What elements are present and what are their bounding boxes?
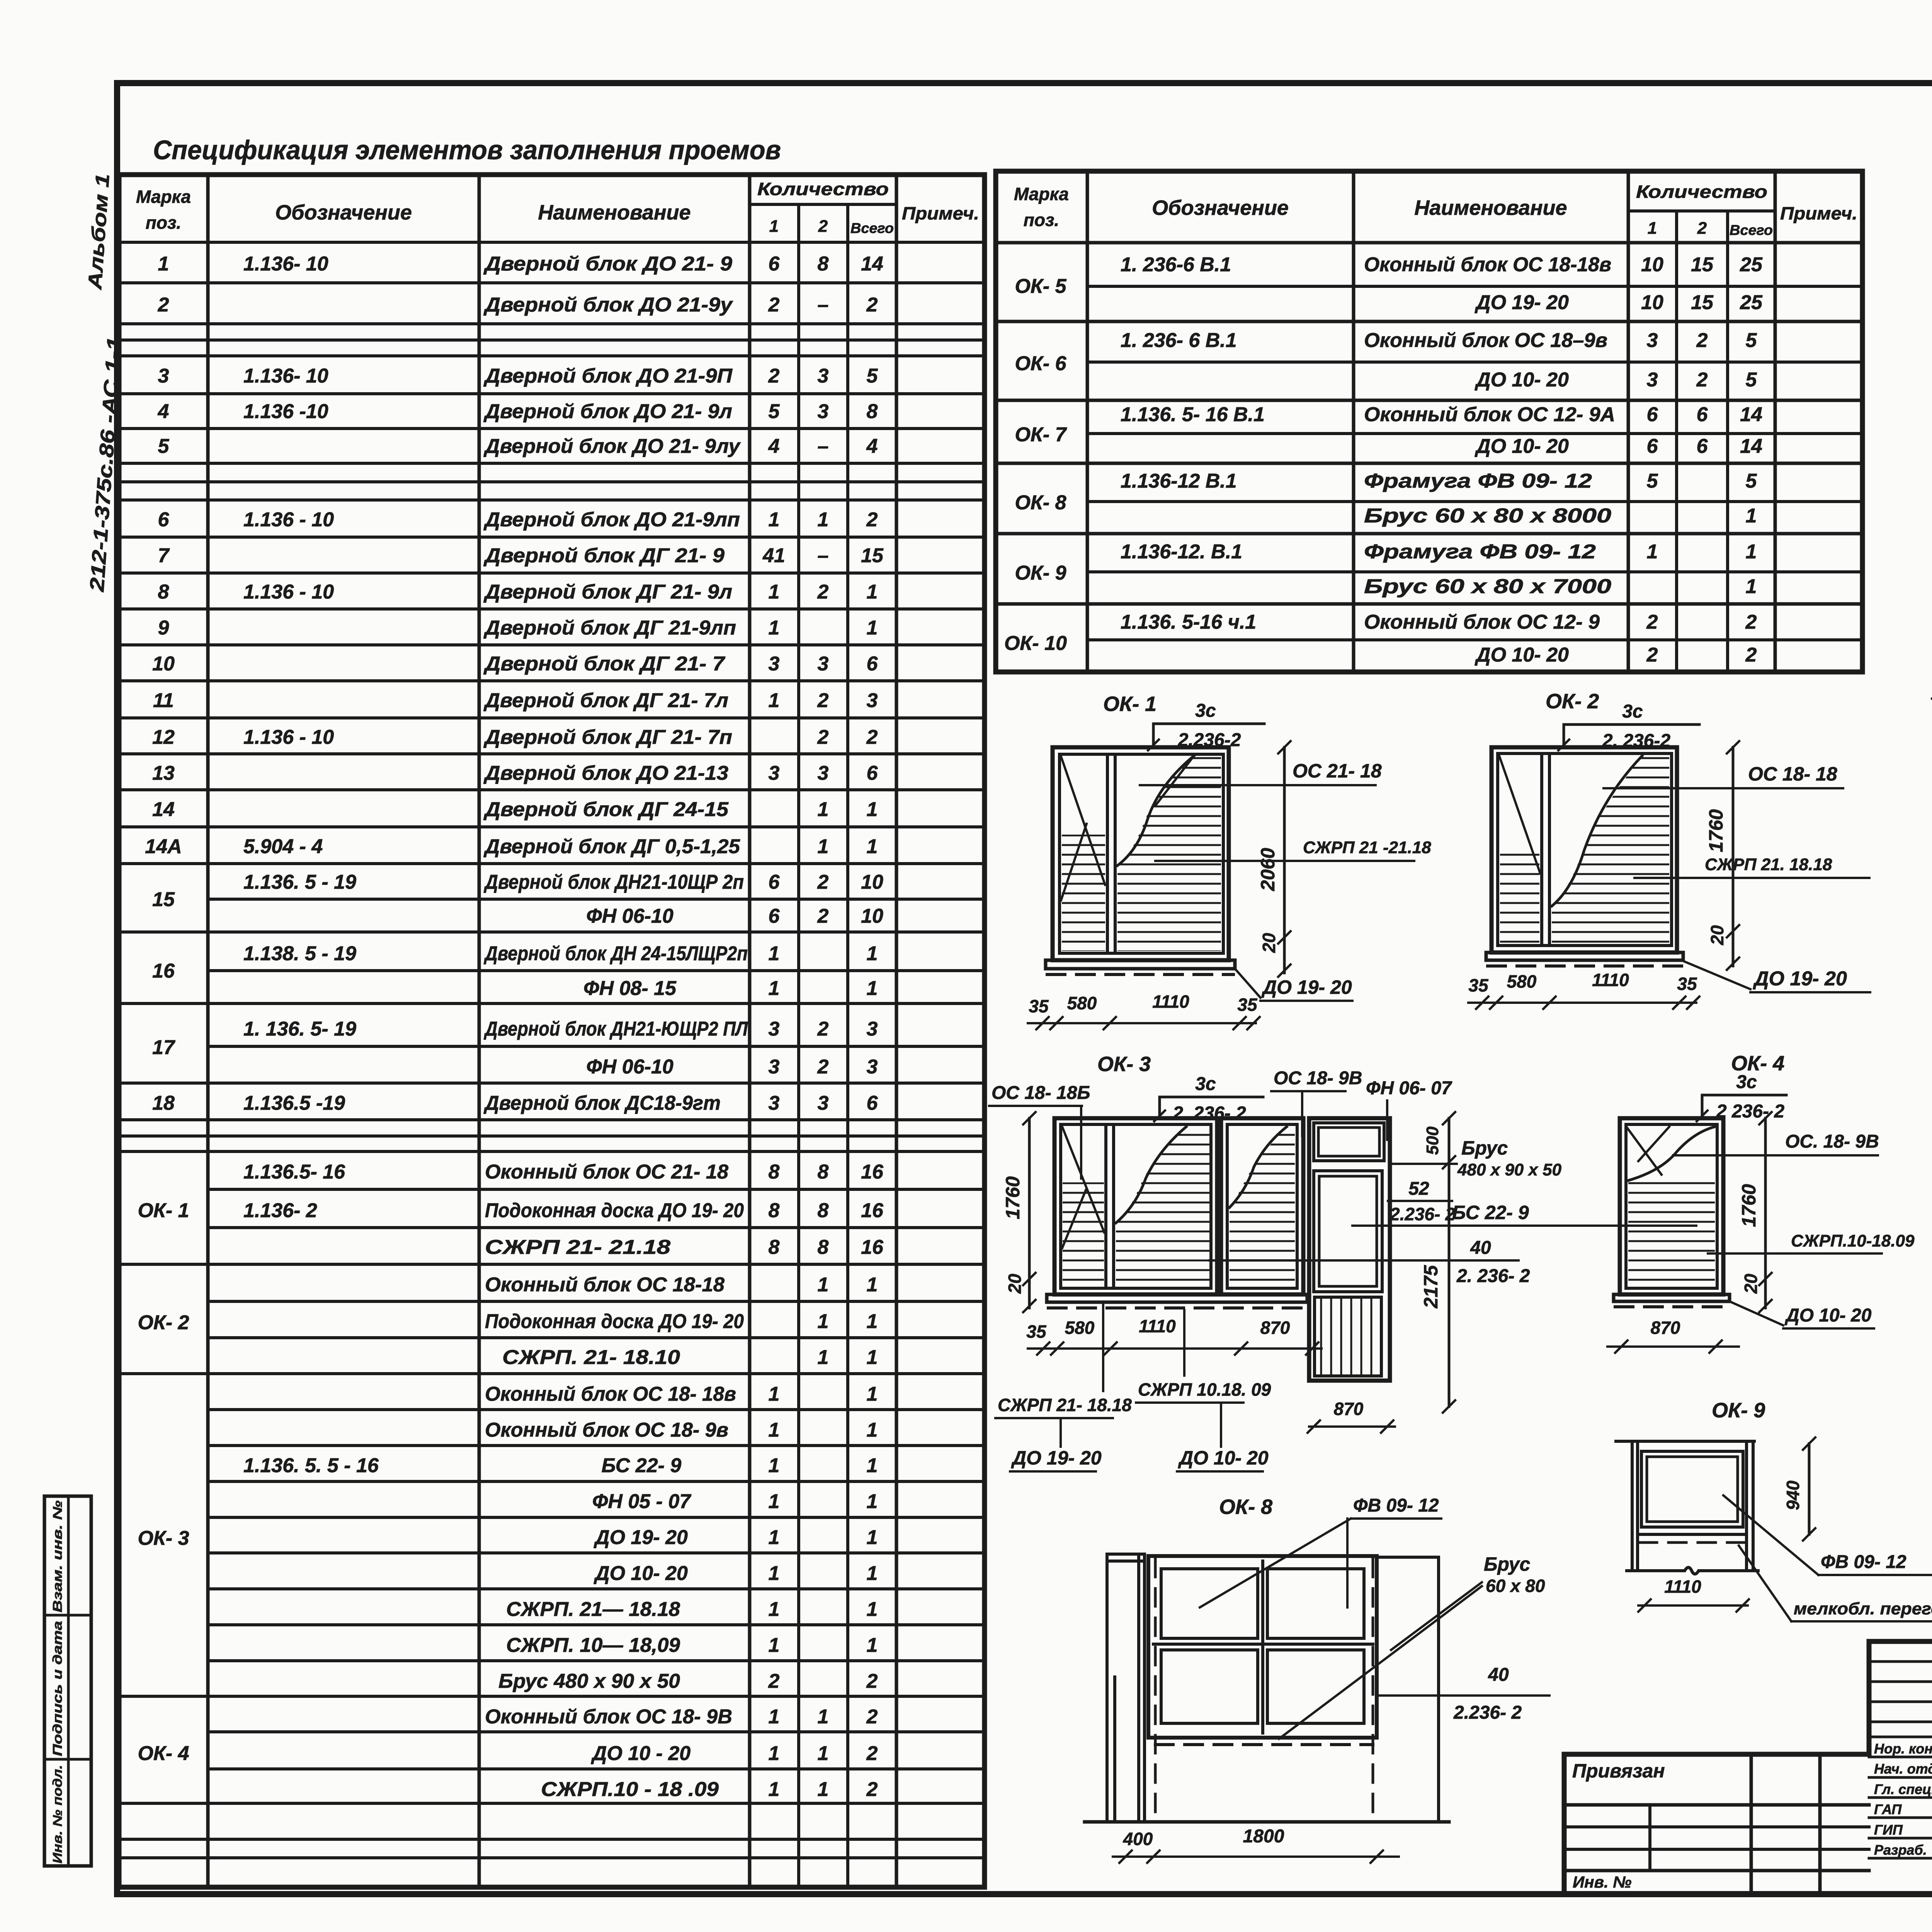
svg-text:3: 3 xyxy=(818,762,829,784)
svg-text:Всего: Всего xyxy=(1730,222,1773,238)
svg-text:5: 5 xyxy=(867,365,878,387)
svg-text:35: 35 xyxy=(1026,1321,1047,1342)
svg-text:1: 1 xyxy=(769,1598,780,1621)
svg-text:5: 5 xyxy=(769,400,780,423)
svg-text:ДО 10- 20: ДО 10- 20 xyxy=(1475,644,1569,666)
svg-text:20: 20 xyxy=(1259,933,1279,953)
OK-4 height dimension xyxy=(1764,1118,1767,1308)
svg-text:8: 8 xyxy=(818,1161,829,1183)
svg-text:1: 1 xyxy=(769,1706,780,1728)
left specification table grid xyxy=(119,172,985,177)
svg-text:14: 14 xyxy=(861,253,883,275)
svg-text:1: 1 xyxy=(818,1706,829,1728)
svg-text:ДО 10- 20: ДО 10- 20 xyxy=(1784,1305,1872,1326)
svg-text:1110: 1110 xyxy=(1592,970,1629,990)
svg-text:500: 500 xyxy=(1423,1126,1442,1155)
svg-text:1: 1 xyxy=(769,942,780,965)
svg-text:Дверной блок ДГ 21- 9: Дверной блок ДГ 21- 9 xyxy=(483,544,724,567)
svg-text:870: 870 xyxy=(1334,1399,1364,1419)
svg-text:5: 5 xyxy=(1746,369,1757,391)
svg-text:870: 870 xyxy=(1651,1318,1680,1338)
svg-text:1.136-12 В.1: 1.136-12 В.1 xyxy=(1121,470,1237,492)
OK-8 ground line xyxy=(1085,1820,1449,1824)
svg-text:Оконный блок ОС 21- 18: Оконный блок ОС 21- 18 xyxy=(485,1161,728,1183)
svg-text:1: 1 xyxy=(818,798,829,821)
svg-text:2: 2 xyxy=(866,294,878,316)
OK-3 sill xyxy=(1047,1294,1307,1302)
svg-text:Дверной блок ДГ 21- 7п: Дверной блок ДГ 21- 7п xyxy=(483,726,732,748)
svg-text:Оконный блок ОС 12- 9А: Оконный блок ОС 12- 9А xyxy=(1364,403,1615,426)
svg-text:Брус 60 х 80 х 8000: Брус 60 х 80 х 8000 xyxy=(1364,505,1611,527)
svg-text:ДО 19- 20: ДО 19- 20 xyxy=(1753,968,1847,990)
svg-text:Оконный блок ОС 18-18: Оконный блок ОС 18-18 xyxy=(485,1274,724,1296)
svg-text:8: 8 xyxy=(769,1161,780,1183)
svg-text:ОК- 3: ОК- 3 xyxy=(1097,1053,1151,1076)
svg-text:2: 2 xyxy=(866,1742,878,1765)
svg-text:Оконный блок ОС 18-18в: Оконный блок ОС 18-18в xyxy=(1364,253,1611,276)
svg-text:1: 1 xyxy=(158,253,169,275)
svg-text:Подпись и дата: Подпись и дата xyxy=(50,1621,65,1756)
svg-text:Оконный блок ОС 18–9в: Оконный блок ОС 18–9в xyxy=(1364,329,1607,352)
svg-text:2: 2 xyxy=(866,726,878,748)
svg-text:1.136 - 10: 1.136 - 10 xyxy=(243,726,334,748)
svg-text:1.136- 10: 1.136- 10 xyxy=(243,253,328,275)
svg-text:1: 1 xyxy=(818,509,829,531)
svg-text:1: 1 xyxy=(867,1634,878,1656)
svg-text:Примеч.: Примеч. xyxy=(1780,203,1857,223)
right specification table grid xyxy=(996,169,1862,174)
svg-text:35: 35 xyxy=(1677,974,1697,994)
svg-text:1: 1 xyxy=(769,1454,780,1477)
svg-text:15: 15 xyxy=(1691,291,1714,314)
svg-text:1.136- 10: 1.136- 10 xyxy=(243,365,328,387)
svg-text:2: 2 xyxy=(866,1706,878,1728)
svg-text:ОК- 8: ОК- 8 xyxy=(1015,492,1066,514)
svg-text:52: 52 xyxy=(1408,1179,1429,1199)
svg-text:6: 6 xyxy=(1647,403,1658,426)
svg-text:8: 8 xyxy=(818,1199,829,1222)
svg-text:6: 6 xyxy=(769,871,780,893)
svg-text:ОК- 6: ОК- 6 xyxy=(1015,352,1066,375)
svg-text:1110: 1110 xyxy=(1664,1577,1701,1597)
svg-text:1: 1 xyxy=(769,617,780,639)
svg-text:ОК- 10: ОК- 10 xyxy=(1004,632,1067,655)
svg-text:6: 6 xyxy=(1697,435,1708,457)
OK-2 labels xyxy=(1604,787,1843,789)
svg-text:Всего: Всего xyxy=(850,220,894,236)
svg-text:3с: 3с xyxy=(1195,1074,1216,1094)
svg-text:20: 20 xyxy=(1741,1274,1761,1294)
svg-text:ОС 18- 18: ОС 18- 18 xyxy=(1748,763,1837,785)
svg-text:10: 10 xyxy=(861,905,883,927)
svg-text:Фрамуга ФВ 09- 12: Фрамуга ФВ 09- 12 xyxy=(1364,470,1592,492)
svg-text:Дверной блок ДН 24-15ЛЩР2п: Дверной блок ДН 24-15ЛЩР2п xyxy=(484,942,748,965)
svg-text:СЖРП 21- 18.18: СЖРП 21- 18.18 xyxy=(998,1395,1132,1415)
svg-text:3с: 3с xyxy=(1622,701,1643,722)
svg-text:ОК- 1: ОК- 1 xyxy=(138,1199,189,1222)
svg-text:1: 1 xyxy=(818,1346,829,1369)
svg-text:ОК- 2: ОК- 2 xyxy=(1546,690,1599,713)
svg-text:10: 10 xyxy=(1641,253,1663,276)
svg-text:2: 2 xyxy=(817,1018,829,1040)
svg-text:2: 2 xyxy=(817,726,829,748)
svg-text:4: 4 xyxy=(768,435,780,457)
svg-text:3: 3 xyxy=(769,762,780,784)
svg-text:3: 3 xyxy=(818,365,829,387)
svg-text:16: 16 xyxy=(861,1236,884,1259)
svg-text:35: 35 xyxy=(1237,995,1258,1015)
svg-text:ОК- 5: ОК- 5 xyxy=(1015,275,1066,298)
svg-text:1110: 1110 xyxy=(1152,992,1189,1012)
svg-text:Наименование: Наименование xyxy=(538,201,690,224)
svg-text:16: 16 xyxy=(861,1161,884,1183)
svg-text:1: 1 xyxy=(867,835,878,858)
svg-text:940: 940 xyxy=(1783,1480,1803,1510)
svg-text:16: 16 xyxy=(861,1199,884,1222)
svg-text:1: 1 xyxy=(769,689,780,712)
svg-text:2.236- 2: 2.236- 2 xyxy=(1389,1204,1455,1224)
svg-text:СЖРП 21 -21.18: СЖРП 21 -21.18 xyxy=(1303,838,1431,857)
svg-text:1. 136. 5- 19: 1. 136. 5- 19 xyxy=(243,1018,356,1040)
svg-text:Количество: Количество xyxy=(1636,182,1767,202)
svg-text:1: 1 xyxy=(818,1310,829,1333)
svg-text:5: 5 xyxy=(1647,470,1658,492)
svg-text:БС 22- 9: БС 22- 9 xyxy=(1452,1202,1529,1223)
svg-text:1: 1 xyxy=(769,1490,780,1513)
OK-1 height dimension xyxy=(1283,747,1286,973)
bottom-left stamp boxes xyxy=(44,1496,91,1866)
svg-text:1: 1 xyxy=(867,798,878,821)
svg-text:2: 2 xyxy=(866,509,878,531)
svg-text:ОК- 2: ОК- 2 xyxy=(138,1311,189,1334)
svg-text:Количество: Количество xyxy=(757,179,889,199)
svg-text:8: 8 xyxy=(769,1199,780,1222)
svg-text:3: 3 xyxy=(769,1018,780,1040)
svg-text:6: 6 xyxy=(769,253,780,275)
svg-text:3: 3 xyxy=(867,1018,878,1040)
svg-text:17: 17 xyxy=(152,1036,175,1059)
svg-text:1: 1 xyxy=(867,1310,878,1333)
svg-text:Брус 480 х 90 х 50: Брус 480 х 90 х 50 xyxy=(498,1670,680,1692)
svg-text:1: 1 xyxy=(1746,575,1757,598)
svg-text:1110: 1110 xyxy=(1139,1316,1176,1336)
OK-2 height dimension xyxy=(1732,747,1735,966)
svg-text:1: 1 xyxy=(867,1526,878,1549)
svg-text:СЖРП.10 - 18 .09: СЖРП.10 - 18 .09 xyxy=(541,1778,719,1801)
svg-text:25: 25 xyxy=(1740,291,1763,314)
svg-text:1: 1 xyxy=(769,217,779,236)
svg-text:Обозначение: Обозначение xyxy=(1152,196,1289,219)
svg-text:2.236- 2: 2.236- 2 xyxy=(1453,1702,1522,1723)
svg-text:1.136.5- 16: 1.136.5- 16 xyxy=(243,1161,345,1183)
svg-text:ОС 18- 9В: ОС 18- 9В xyxy=(1274,1068,1362,1088)
OK-8 bottom dimensions xyxy=(1113,1855,1399,1858)
svg-text:Фрамуга ФВ 09- 12: Фрамуга ФВ 09- 12 xyxy=(1364,541,1596,563)
svg-text:СЖРП 21- 21.18: СЖРП 21- 21.18 xyxy=(485,1236,670,1259)
svg-text:1: 1 xyxy=(867,1346,878,1369)
svg-text:Дверной блок ДГ 24-15: Дверной блок ДГ 24-15 xyxy=(483,798,729,821)
svg-text:мелкобл. перегородки: мелкобл. перегородки xyxy=(1794,1599,1932,1618)
svg-text:ДО 10- 20: ДО 10- 20 xyxy=(1475,435,1569,457)
svg-text:25: 25 xyxy=(1740,253,1763,276)
svg-text:1: 1 xyxy=(867,617,878,639)
svg-text:Дверной блок ДГ 0,5-1,25: Дверной блок ДГ 0,5-1,25 xyxy=(483,835,740,858)
svg-text:3: 3 xyxy=(867,1056,878,1078)
svg-text:6: 6 xyxy=(158,509,170,531)
svg-text:Подоконная доска ДО 19- 20: Подоконная доска ДО 19- 20 xyxy=(485,1310,744,1333)
svg-text:8: 8 xyxy=(818,1236,829,1259)
svg-text:2: 2 xyxy=(1697,219,1707,238)
svg-text:ФВ 09- 12: ФВ 09- 12 xyxy=(1821,1552,1906,1572)
svg-text:Оконный блок ОС 18- 9в: Оконный блок ОС 18- 9в xyxy=(485,1419,728,1441)
svg-text:41: 41 xyxy=(762,544,785,567)
svg-text:СЖРП. 21— 18.18: СЖРП. 21— 18.18 xyxy=(506,1598,680,1621)
svg-text:1.136. 5 - 19: 1.136. 5 - 19 xyxy=(243,871,356,893)
svg-text:2175: 2175 xyxy=(1420,1265,1442,1308)
OK-4 width dimension xyxy=(1607,1345,1739,1348)
svg-text:6: 6 xyxy=(1647,435,1658,457)
svg-text:1: 1 xyxy=(867,1274,878,1296)
svg-text:Примеч.: Примеч. xyxy=(902,203,979,223)
svg-text:3: 3 xyxy=(818,653,829,675)
OK-2 sill xyxy=(1486,952,1683,960)
svg-text:Дверной блок ДГ 21- 9л: Дверной блок ДГ 21- 9л xyxy=(483,581,732,603)
svg-text:3: 3 xyxy=(818,400,829,423)
svg-text:15: 15 xyxy=(152,888,175,911)
svg-text:14: 14 xyxy=(1740,435,1762,457)
svg-text:20: 20 xyxy=(1005,1274,1025,1294)
svg-text:Дверной блок ДО 21- 9: Дверной блок ДО 21- 9 xyxy=(483,253,732,275)
svg-text:1: 1 xyxy=(867,977,878,1000)
svg-text:Нор. контр: Нор. контр xyxy=(1874,1741,1932,1757)
svg-text:Оконный блок ОС 18- 9В: Оконный блок ОС 18- 9В xyxy=(485,1706,732,1728)
svg-text:1: 1 xyxy=(1746,541,1757,563)
svg-text:1: 1 xyxy=(769,1419,780,1441)
svg-text:Брус: Брус xyxy=(1461,1137,1508,1159)
svg-text:15: 15 xyxy=(861,544,884,567)
OK-3 bottom leaders and labels xyxy=(1102,1302,1104,1391)
svg-text:1: 1 xyxy=(867,1490,878,1513)
svg-text:2: 2 xyxy=(817,871,829,893)
svg-text:580: 580 xyxy=(1065,1318,1095,1338)
svg-text:ФН 06- 07: ФН 06- 07 xyxy=(1366,1078,1452,1099)
svg-text:2: 2 xyxy=(1745,644,1757,666)
OK-1 sill xyxy=(1046,960,1235,969)
svg-text:16: 16 xyxy=(152,960,175,982)
svg-text:ГИП: ГИП xyxy=(1874,1822,1903,1838)
svg-text:3: 3 xyxy=(818,1092,829,1114)
svg-text:3: 3 xyxy=(769,653,780,675)
svg-text:Дверной блок ДО 21- 9лу: Дверной блок ДО 21- 9лу xyxy=(483,435,741,457)
svg-text:1: 1 xyxy=(818,835,829,858)
svg-text:ОК- 9: ОК- 9 xyxy=(1712,1399,1765,1422)
svg-text:ОС 18- 18Б: ОС 18- 18Б xyxy=(992,1083,1090,1103)
svg-text:6: 6 xyxy=(769,905,780,927)
svg-text:5.904 - 4: 5.904 - 4 xyxy=(243,835,323,858)
svg-text:6: 6 xyxy=(867,1092,878,1114)
svg-text:ОК- 9: ОК- 9 xyxy=(1015,562,1066,584)
svg-text:1: 1 xyxy=(867,1454,878,1477)
svg-text:ОС 21- 18: ОС 21- 18 xyxy=(1293,760,1382,782)
svg-text:1: 1 xyxy=(769,1383,780,1405)
svg-text:1.136 -10: 1.136 -10 xyxy=(243,400,328,423)
svg-text:2: 2 xyxy=(768,365,780,387)
svg-text:5: 5 xyxy=(158,435,170,457)
svg-text:1: 1 xyxy=(769,1634,780,1656)
svg-text:СЖРП.10-18.09: СЖРП.10-18.09 xyxy=(1791,1231,1915,1250)
svg-text:1.136- 2: 1.136- 2 xyxy=(243,1199,317,1222)
svg-text:1. 236-6 В.1: 1. 236-6 В.1 xyxy=(1121,253,1231,276)
svg-text:1760: 1760 xyxy=(1738,1184,1760,1227)
svg-text:13: 13 xyxy=(152,762,175,784)
svg-text:35: 35 xyxy=(1468,975,1489,995)
svg-text:1: 1 xyxy=(769,1562,780,1585)
svg-text:1: 1 xyxy=(769,977,780,1000)
svg-text:1800: 1800 xyxy=(1243,1826,1284,1847)
svg-text:1: 1 xyxy=(1746,505,1757,527)
svg-text:2: 2 xyxy=(1646,611,1658,633)
svg-text:3с: 3с xyxy=(1195,701,1216,721)
svg-text:3: 3 xyxy=(769,1092,780,1114)
svg-text:580: 580 xyxy=(1507,971,1537,992)
svg-text:40: 40 xyxy=(1488,1665,1509,1685)
svg-text:14: 14 xyxy=(1740,403,1762,426)
svg-text:ДО 19- 20: ДО 19- 20 xyxy=(1475,291,1569,314)
svg-text:Марка: Марка xyxy=(136,187,191,207)
svg-text:Дверной блок ДН21-10ЩР 2п: Дверной блок ДН21-10ЩР 2п xyxy=(483,871,744,893)
svg-text:3: 3 xyxy=(769,1056,780,1078)
OK-3 right dimension chain xyxy=(1448,1118,1451,1406)
svg-text:2 236- 2: 2 236- 2 xyxy=(1716,1101,1784,1122)
svg-text:Подоконная доска ДО 19- 20: Подоконная доска ДО 19- 20 xyxy=(485,1199,744,1222)
svg-text:1: 1 xyxy=(769,581,780,603)
svg-text:Дверной блок ДС18-9гт: Дверной блок ДС18-9гт xyxy=(483,1092,721,1114)
svg-text:10: 10 xyxy=(152,653,175,675)
svg-text:Спецификация элементов запол: Спецификация элементов заполнения проемо… xyxy=(153,135,781,165)
svg-text:–: – xyxy=(818,435,829,457)
svg-text:4: 4 xyxy=(158,400,169,423)
svg-text:Дверной блок ДГ 21- 7л: Дверной блок ДГ 21- 7л xyxy=(483,689,728,712)
OK-9 ground line with break xyxy=(1627,1568,1758,1574)
svg-text:Брус: Брус xyxy=(1484,1553,1530,1575)
svg-text:СЖРП. 21- 18.10: СЖРП. 21- 18.10 xyxy=(502,1346,680,1369)
svg-text:Взам. инв. №: Взам. инв. № xyxy=(50,1500,65,1612)
OK-8 wall post left xyxy=(1105,1554,1109,1822)
svg-text:Дверной блок ДО 21-13: Дверной блок ДО 21-13 xyxy=(483,762,728,784)
svg-text:Инв. №: Инв. № xyxy=(1573,1873,1631,1891)
svg-text:1.136 - 10: 1.136 - 10 xyxy=(243,581,334,603)
svg-text:ФВ 09- 12: ФВ 09- 12 xyxy=(1353,1495,1439,1516)
svg-text:ДО 10 - 20: ДО 10 - 20 xyxy=(591,1742,690,1765)
svg-text:Дверной блок ДГ 21-9лп: Дверной блок ДГ 21-9лп xyxy=(483,617,736,639)
svg-text:Инв. № подл.: Инв. № подл. xyxy=(50,1765,65,1864)
svg-text:1. 236- 6 В.1: 1. 236- 6 В.1 xyxy=(1121,329,1237,352)
svg-text:–: – xyxy=(818,544,829,567)
svg-text:ДО 19- 20: ДО 19- 20 xyxy=(1011,1447,1102,1469)
svg-text:8: 8 xyxy=(818,253,829,275)
svg-text:Дверной блок ДО 21-9у: Дверной блок ДО 21-9у xyxy=(483,294,734,316)
svg-text:1.136 - 10: 1.136 - 10 xyxy=(243,509,334,531)
svg-text:1.136. 5-16 ч.1: 1.136. 5-16 ч.1 xyxy=(1121,611,1256,633)
svg-text:ДО 19- 20: ДО 19- 20 xyxy=(1261,976,1352,998)
svg-text:1760: 1760 xyxy=(1705,809,1727,852)
OK-1 labels xyxy=(1140,784,1376,786)
OK-3 width dimensions xyxy=(1028,1347,1321,1350)
svg-text:2: 2 xyxy=(818,217,828,236)
svg-text:1: 1 xyxy=(867,1562,878,1585)
svg-text:14: 14 xyxy=(152,798,175,821)
svg-text:1: 1 xyxy=(867,1383,878,1405)
svg-text:870: 870 xyxy=(1260,1318,1290,1338)
svg-text:2: 2 xyxy=(1745,611,1757,633)
svg-text:ФН 05 - 07: ФН 05 - 07 xyxy=(592,1490,692,1513)
svg-text:2: 2 xyxy=(158,294,169,316)
svg-text:ФН 06-10: ФН 06-10 xyxy=(586,905,673,927)
svg-text:480 х 90 х 50: 480 х 90 х 50 xyxy=(1457,1160,1562,1179)
OK-9 dimensions xyxy=(1808,1444,1811,1534)
svg-text:8: 8 xyxy=(158,581,169,603)
svg-text:1: 1 xyxy=(769,509,780,531)
svg-text:5: 5 xyxy=(1746,329,1757,352)
svg-text:ДО 19- 20: ДО 19- 20 xyxy=(594,1526,688,1549)
svg-text:1: 1 xyxy=(818,1778,829,1801)
svg-text:Привязан: Привязан xyxy=(1572,1760,1665,1782)
svg-text:СЖРП 21. 18.18: СЖРП 21. 18.18 xyxy=(1705,855,1832,874)
svg-text:Дверной блок ДО 21- 9л: Дверной блок ДО 21- 9л xyxy=(483,400,732,423)
svg-text:БС 22- 9: БС 22- 9 xyxy=(602,1454,682,1477)
svg-text:2: 2 xyxy=(817,1056,829,1078)
svg-text:12: 12 xyxy=(152,726,175,748)
svg-text:поз.: поз. xyxy=(146,213,181,233)
svg-text:СЖРП. 10— 18,09: СЖРП. 10— 18,09 xyxy=(506,1634,680,1656)
svg-text:ФН 08- 15: ФН 08- 15 xyxy=(583,977,677,1000)
svg-text:ОК- 8: ОК- 8 xyxy=(1219,1495,1272,1519)
svg-text:ОК- 3: ОК- 3 xyxy=(138,1527,189,1549)
svg-text:1.136-12. В.1: 1.136-12. В.1 xyxy=(1121,541,1242,563)
svg-text:3: 3 xyxy=(867,689,878,712)
OK-4 labels xyxy=(1673,1154,1878,1156)
svg-text:ДО 10- 20: ДО 10- 20 xyxy=(1475,369,1569,391)
svg-text:ОК- 1: ОК- 1 xyxy=(1103,692,1156,716)
svg-text:580: 580 xyxy=(1067,993,1097,1013)
OK-3 right tall unit xyxy=(1309,1118,1390,1381)
svg-text:1: 1 xyxy=(867,942,878,965)
OK-1 width dimensions xyxy=(1028,1022,1256,1024)
svg-text:1.136. 5. 5 - 16: 1.136. 5. 5 - 16 xyxy=(243,1454,379,1477)
svg-text:10: 10 xyxy=(861,871,883,893)
svg-text:Марка: Марка xyxy=(1014,184,1069,204)
svg-text:1.136. 5- 16 В.1: 1.136. 5- 16 В.1 xyxy=(1121,403,1265,426)
svg-text:1: 1 xyxy=(769,1526,780,1549)
OK-4 sill xyxy=(1614,1294,1730,1301)
svg-text:7: 7 xyxy=(158,544,170,567)
svg-text:2. 236- 2: 2. 236- 2 xyxy=(1172,1103,1246,1124)
svg-text:9: 9 xyxy=(158,617,169,639)
svg-text:Брус 60 х 80 х 7000: Брус 60 х 80 х 7000 xyxy=(1364,575,1611,598)
svg-text:ОК- 4: ОК- 4 xyxy=(138,1742,189,1765)
svg-text:ДО 10- 20: ДО 10- 20 xyxy=(1178,1447,1269,1469)
svg-text:1.136.5 -19: 1.136.5 -19 xyxy=(243,1092,345,1114)
svg-text:3: 3 xyxy=(1647,369,1658,391)
svg-text:5: 5 xyxy=(1746,470,1757,492)
svg-text:2: 2 xyxy=(866,1670,878,1692)
svg-text:ДО 10- 20: ДО 10- 20 xyxy=(594,1562,688,1585)
svg-text:2. 236- 2: 2. 236- 2 xyxy=(1456,1266,1530,1286)
svg-text:1: 1 xyxy=(867,1598,878,1621)
svg-text:1: 1 xyxy=(769,1778,780,1801)
svg-text:Гл. спец.: Гл. спец. xyxy=(1874,1781,1932,1797)
title block left annex (privyazan) xyxy=(1564,1803,1869,1807)
